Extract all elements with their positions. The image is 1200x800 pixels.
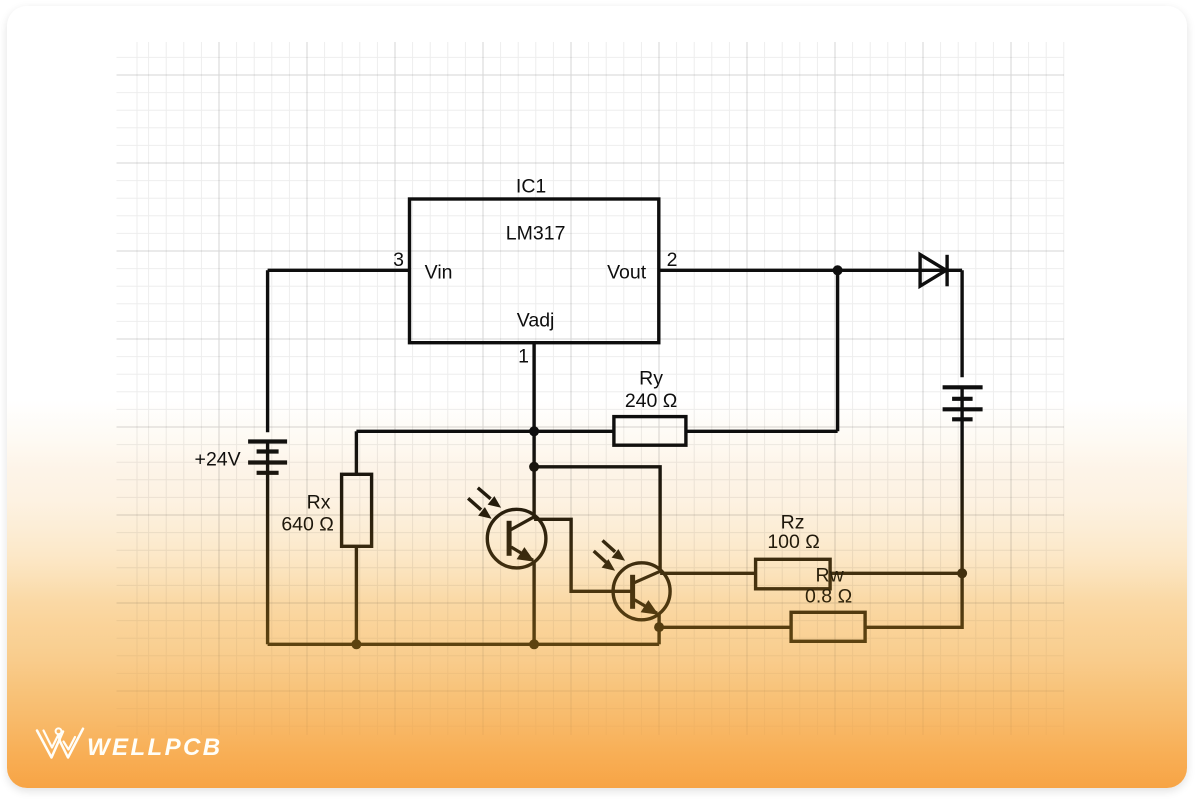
wire Q2 collector branch bbox=[534, 467, 660, 572]
wire Rx bottom stem bbox=[355, 546, 358, 644]
wire Q1 collector to Q2 base bbox=[534, 519, 633, 591]
wire right battery top stem bbox=[960, 270, 963, 377]
wire Q1 emitter down bbox=[532, 561, 535, 644]
resistor Rz body bbox=[756, 559, 831, 589]
transistor Q2 internals bbox=[633, 571, 661, 613]
wire Rx top horizontal bbox=[356, 430, 534, 433]
IC IC1 LM317 regulator body bbox=[410, 199, 659, 343]
transistor Q1 emitter arrowhead bbox=[517, 547, 535, 562]
junction node Vadj/Ry bbox=[529, 426, 539, 436]
wire Vadj node down bbox=[532, 431, 535, 519]
diode D1 triangle bbox=[920, 255, 946, 287]
junction node Q2 collector branch bbox=[529, 462, 539, 472]
wire Q2 emitter to bottom rail bbox=[657, 613, 660, 644]
wire Vin pin 3 to battery bbox=[268, 269, 410, 272]
wire Rx top stem bbox=[355, 431, 358, 474]
wire battery top stem bbox=[266, 270, 269, 432]
wire Vadj stem bbox=[532, 343, 535, 432]
wire right rail down to Rw level bbox=[865, 573, 962, 627]
wire diode cathode to corner bbox=[948, 269, 963, 272]
battery BT2 plates bbox=[943, 387, 983, 419]
transistor Q2 emitter arrowhead bbox=[641, 600, 659, 615]
junction node Vout/diode bbox=[833, 265, 843, 275]
wire battery bottom stem bbox=[266, 442, 269, 645]
junction node Q1 emitter bottom bbox=[529, 639, 539, 649]
junction node Q2 emitter bbox=[654, 622, 664, 632]
light arrows onto Q1 bbox=[468, 488, 501, 519]
resistor Rx body bbox=[342, 474, 372, 546]
battery BT1 plates bbox=[248, 442, 287, 473]
wire Rw to Q2 emitter node bbox=[659, 626, 791, 629]
wire Ry left to Vadj node bbox=[534, 430, 614, 433]
resistor Rw body bbox=[791, 612, 865, 641]
wire feedback vertical from Vout node bbox=[836, 270, 839, 431]
junction node Rz right bbox=[957, 568, 967, 578]
wire Rz to right rail bbox=[830, 572, 962, 575]
transistor Q1 internals bbox=[509, 517, 534, 561]
wire bottom rail bbox=[268, 643, 659, 646]
diode D1 cathode bar bbox=[945, 255, 948, 286]
wire Vout pin 2 to diode bbox=[659, 269, 947, 272]
transistor Q2 circle bbox=[613, 563, 670, 620]
junction node Rx bottom bbox=[351, 639, 361, 649]
transistor Q1 circle bbox=[487, 509, 546, 568]
wire Q2 collector to Rz bbox=[660, 572, 756, 575]
light arrows onto Q2 bbox=[594, 541, 625, 571]
resistor Ry body bbox=[614, 417, 686, 446]
wire Ry right side bbox=[686, 430, 838, 433]
wire right battery bottom stem bbox=[960, 389, 963, 574]
